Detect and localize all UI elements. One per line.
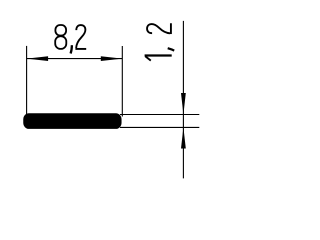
arrowhead left of dimension 8,2	[27, 56, 48, 61]
dimension text 8,2 : digit 8	[55, 25, 66, 49]
dimension line 1,2 (vertical)	[182, 21, 184, 179]
dimension line 8,2	[27, 58, 123, 60]
extension line bottom (for 1,2)	[120, 126, 199, 128]
dimension text 1,2 (rotated): comma	[168, 48, 175, 50]
dimension text 8,2 : comma	[71, 45, 72, 53]
dimension text 1,2 (rotated): digit 2	[147, 23, 171, 34]
extension line top (for 1,2)	[120, 114, 199, 116]
extension line left (for 8,2)	[26, 46, 28, 116]
arrowhead pointing down (top side of 1,2)	[181, 93, 186, 115]
arrowhead right of dimension 8,2	[101, 56, 123, 61]
dimension text 1,2 (rotated): digit 1	[145, 56, 172, 61]
part cross-section (black pill / stadium profile)	[23, 113, 121, 129]
extension line right (for 8,2)	[121, 46, 123, 117]
arrowhead pointing up (bottom side of 1,2)	[181, 127, 186, 148]
dimension text 8,2 : digit 2	[75, 25, 86, 49]
